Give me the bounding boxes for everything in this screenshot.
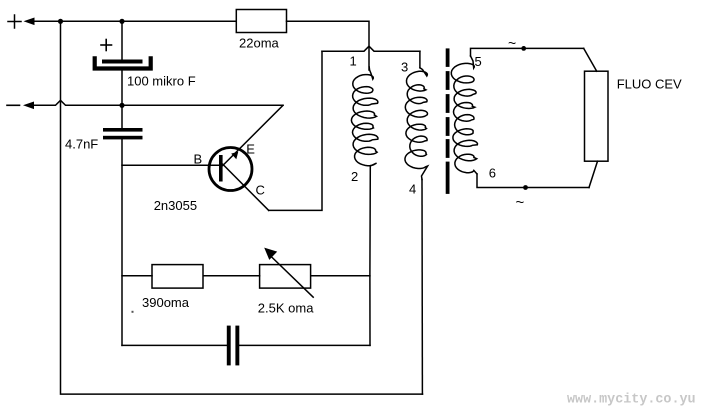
potentiometer arrow diagonal xyxy=(270,255,313,297)
wire minus rail to 4.7nF xyxy=(121,105,123,128)
capacitor C1 negative bracket plate xyxy=(95,58,151,68)
capacitor C1 positive plate xyxy=(102,60,143,64)
node dot B xyxy=(119,19,124,24)
svg-text:4: 4 xyxy=(409,182,416,197)
svg-text:100 mikro F: 100 mikro F xyxy=(127,74,196,89)
wire bottom cap right xyxy=(239,344,370,346)
svg-text:6: 6 xyxy=(489,166,496,181)
svg-text:2: 2 xyxy=(351,169,358,184)
fluorescent tube FLUO CEV xyxy=(585,71,609,161)
arrow plus terminal xyxy=(24,18,35,26)
svg-text:4.7nF: 4.7nF xyxy=(65,137,98,152)
svg-text:FLUO CEV: FLUO CEV xyxy=(617,77,682,92)
wire emitter diagonal to minus rail xyxy=(223,105,283,165)
transistor Q1 base bar xyxy=(219,155,223,182)
winding 1-2 primary xyxy=(351,67,378,166)
node dot A xyxy=(58,19,63,24)
wire pin3 corner down xyxy=(419,51,421,68)
wire base node to 390oma xyxy=(122,275,152,277)
svg-text:B: B xyxy=(194,152,203,167)
wire diagonal to tube top xyxy=(584,48,597,71)
winding 3-4 xyxy=(405,68,428,180)
svg-text:390oma: 390oma xyxy=(142,295,190,310)
svg-text:3: 3 xyxy=(401,60,408,75)
svg-text:5: 5 xyxy=(475,54,482,69)
svg-text:E: E xyxy=(246,142,255,157)
svg-text:2n3055: 2n3055 xyxy=(154,198,197,213)
node dot secondary bottom xyxy=(523,185,528,190)
capacitor C2 4.7nF plates xyxy=(103,128,143,132)
terminal plus xyxy=(8,15,21,28)
wire pot to pin2 node xyxy=(311,275,370,277)
wire 4.7nF down to base node and bottom xyxy=(121,139,123,345)
wire outer loop pin4 to plus rail xyxy=(61,21,423,394)
svg-text:C: C xyxy=(256,183,265,198)
wire bottom cap left xyxy=(122,344,227,346)
svg-text:1: 1 xyxy=(350,54,357,69)
transistor Q1 collector diagonal xyxy=(223,164,269,210)
winding 5-6 secondary xyxy=(451,56,477,174)
wire resistor to transformer corner xyxy=(287,21,370,70)
node dot secondary top xyxy=(521,46,526,51)
wire minus rail with hop over left vertical xyxy=(33,100,284,105)
wire transformer top with hop xyxy=(322,46,420,51)
wire pin 6 down and secondary bottom xyxy=(477,174,589,188)
svg-text:~: ~ xyxy=(508,35,516,51)
wire base xyxy=(122,164,219,166)
wire 390oma to pot xyxy=(204,275,260,277)
capacitor C1 plus sign xyxy=(101,40,112,51)
transistor Q1 circle xyxy=(209,148,252,191)
wire top rail xyxy=(33,20,236,22)
resistor R2 390oma xyxy=(152,265,203,289)
wire pin 4 down xyxy=(421,180,423,395)
terminal minus xyxy=(7,104,20,106)
svg-text:www.mycity.co.yu: www.mycity.co.yu xyxy=(567,393,696,408)
capacitor C3 bottom plates xyxy=(227,326,231,366)
svg-text:22oma: 22oma xyxy=(239,36,280,51)
resistor R1 22oma xyxy=(236,10,286,33)
wire cap to minus rail xyxy=(121,71,123,105)
capacitor C1 100 mikro F plate + wire xyxy=(121,21,123,59)
transformer core dashed xyxy=(446,50,450,192)
wire diagonal from tube bottom xyxy=(589,161,598,187)
svg-text:2.5K oma: 2.5K oma xyxy=(258,301,314,316)
potentiometer R3 2.5K box xyxy=(260,265,311,289)
stray dot xyxy=(132,311,134,313)
wire secondary top xyxy=(471,48,584,56)
potentiometer arrowhead xyxy=(264,248,277,260)
transistor Q1 emitter arrowhead xyxy=(231,152,238,160)
wire pin 2 down xyxy=(369,166,371,345)
node dot C xyxy=(119,103,124,108)
wire collector to transformer xyxy=(269,51,322,210)
svg-text:~: ~ xyxy=(516,194,525,211)
arrow minus terminal xyxy=(23,102,34,110)
